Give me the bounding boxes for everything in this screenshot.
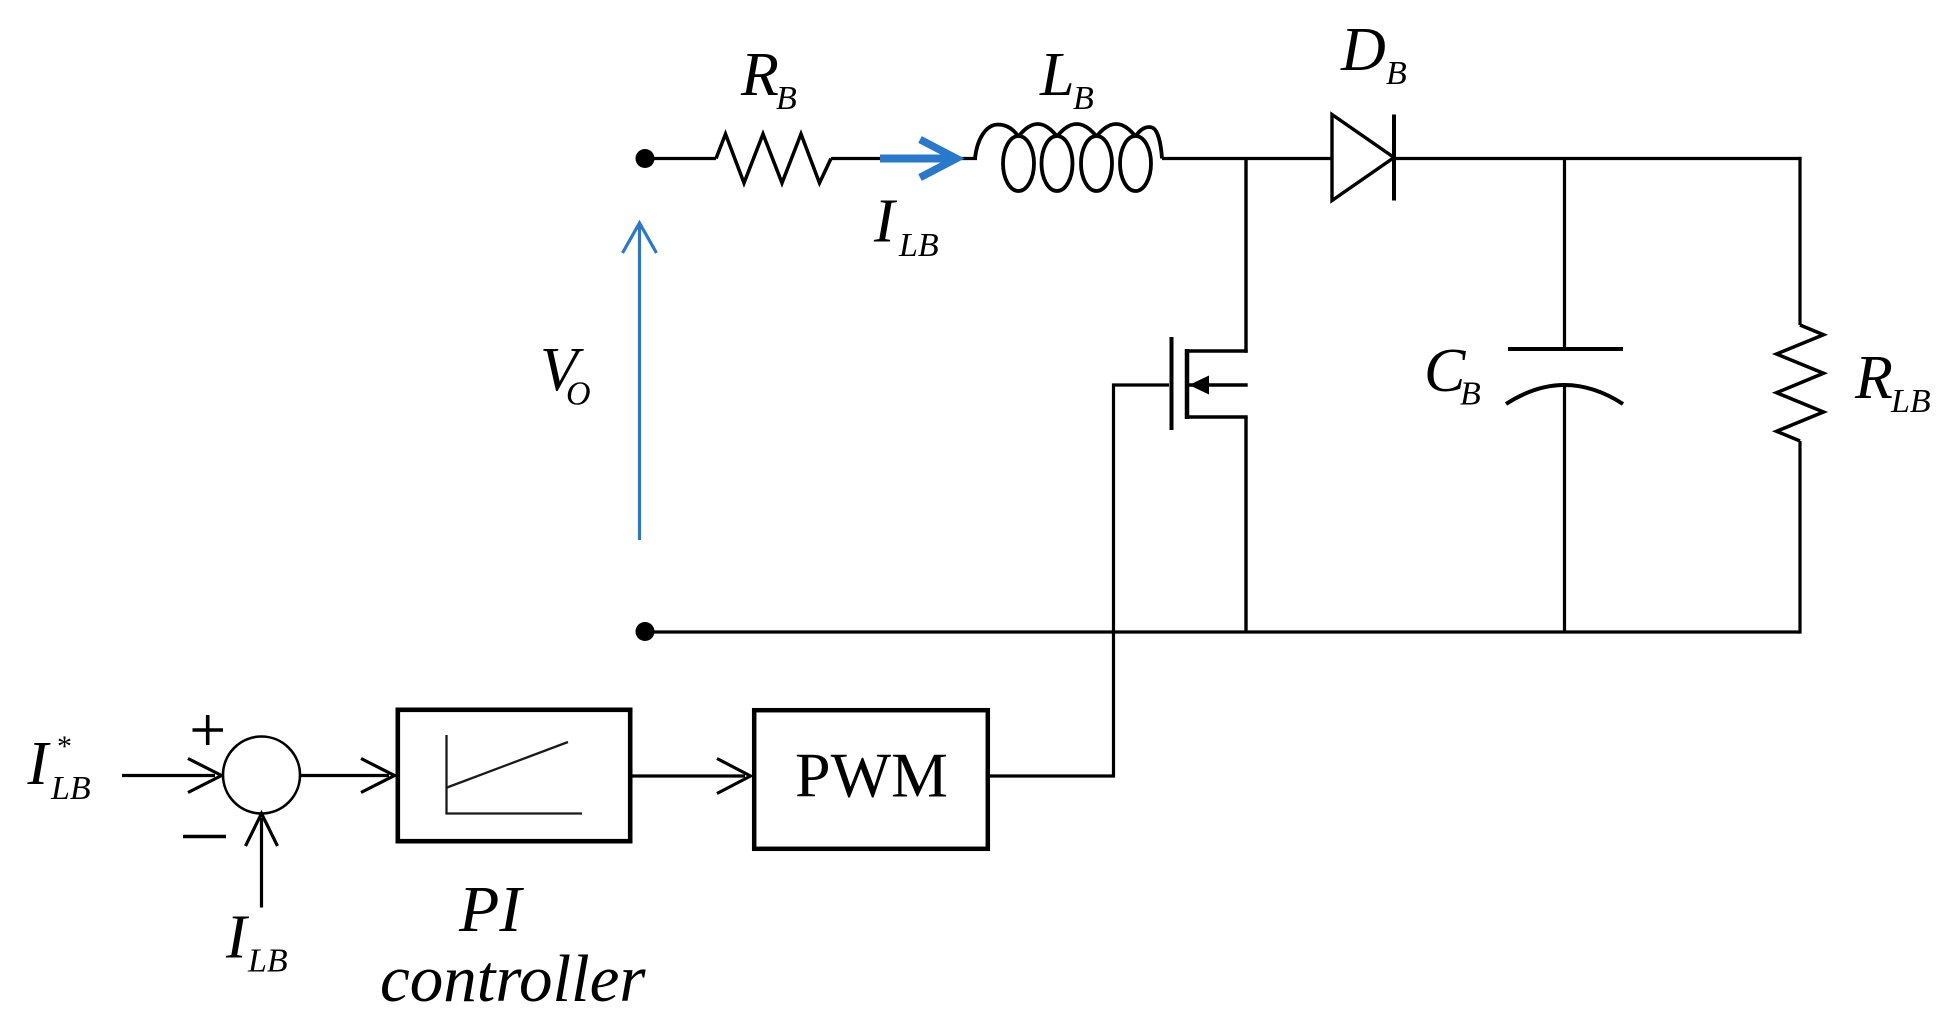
transistor Q drain lead	[1187, 349, 1248, 352]
label I*_LB (reference current)	[27, 730, 91, 807]
transistor Q channel bar	[1185, 349, 1190, 419]
label R_LB	[1854, 344, 1931, 420]
wire: top rail down to R_LB	[1798, 157, 1801, 325]
wire: capacitor branch top lead	[1563, 159, 1566, 350]
wire: capacitor bottom lead	[1563, 386, 1566, 632]
label C_B	[1424, 337, 1481, 413]
wire: PI to PWM	[630, 759, 751, 794]
wire: PWM output to MOSFET gate	[990, 385, 1169, 776]
svg-text:B: B	[1386, 55, 1407, 92]
transistor Q (MOSFET) gate bar	[1170, 337, 1174, 430]
wire: R_LB to bottom rail	[1798, 441, 1801, 634]
label D_B	[1340, 16, 1407, 92]
svg-text:B: B	[1460, 376, 1481, 413]
svg-text:R: R	[1854, 344, 1893, 412]
inductor L_B	[975, 124, 1162, 191]
svg-text:LB: LB	[50, 770, 91, 807]
resistor R_B	[716, 134, 831, 183]
wire: error to PI controller	[300, 759, 395, 793]
svg-text:LB: LB	[1890, 383, 1931, 420]
wire: R_B to L_B	[831, 157, 977, 160]
PI controller box U1	[398, 710, 630, 841]
label V_O	[540, 336, 591, 413]
summing junction	[223, 737, 300, 814]
wire: bottom rail	[649, 630, 1800, 633]
diode D_B	[1332, 115, 1394, 201]
svg-text:B: B	[776, 80, 797, 117]
node: negative input terminal	[636, 622, 655, 641]
svg-text:O: O	[566, 376, 591, 413]
svg-text:*: *	[57, 730, 72, 763]
svg-text:PWM: PWM	[795, 740, 948, 811]
voltage arrow V_O (blue)	[623, 223, 657, 540]
wire: L_B to diode	[1162, 157, 1332, 160]
plus sign	[193, 715, 224, 745]
svg-text:L: L	[1039, 41, 1074, 109]
svg-text:B: B	[1073, 80, 1094, 117]
wire: diode to top-right corner	[1394, 157, 1802, 160]
capacitor C_B top plate	[1508, 347, 1623, 351]
wire: drain branch from top rail	[1244, 159, 1247, 353]
svg-text:I: I	[27, 730, 52, 798]
svg-text:D: D	[1340, 16, 1386, 84]
node: positive input terminal	[636, 149, 655, 168]
wire: source to bottom rail	[1244, 417, 1247, 632]
transistor Q source lead	[1187, 415, 1248, 418]
feedback arrow into summer	[246, 814, 278, 908]
svg-text:controller: controller	[380, 942, 646, 1016]
resistor R_LB	[1777, 325, 1824, 441]
label I_LB	[873, 188, 939, 265]
label R_B	[740, 41, 797, 117]
PI controller ramp icon	[447, 735, 583, 814]
svg-text:R: R	[740, 41, 779, 109]
PWM box U2	[754, 710, 988, 849]
label L_B	[1039, 41, 1094, 117]
svg-text:LB: LB	[898, 227, 939, 264]
svg-text:PI: PI	[458, 873, 524, 946]
minus sign	[183, 835, 226, 839]
svg-text:I: I	[873, 188, 898, 256]
wire: terminal to R_B	[649, 157, 716, 160]
svg-text:I: I	[225, 904, 250, 972]
capacitor C_B curved bottom plate	[1506, 385, 1623, 404]
wire: setpoint arrow into summer	[122, 759, 222, 793]
current arrow I_LB (blue)	[880, 140, 957, 178]
label I_LB (measured current)	[225, 904, 288, 980]
svg-text:LB: LB	[247, 943, 288, 980]
transistor Q body lead with arrow	[1189, 383, 1248, 386]
